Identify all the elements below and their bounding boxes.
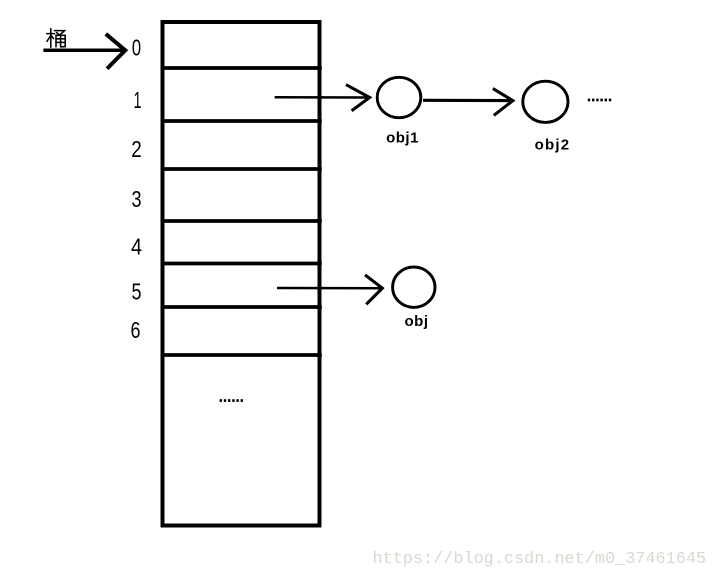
cell divider under bucket 3: [161, 219, 322, 223]
cell divider under bucket 5: [161, 305, 322, 309]
svg-text:6: 6: [131, 317, 141, 343]
label 桶 (bucket) drawn as strokes: [47, 29, 65, 48]
cell divider under bucket 6: [161, 353, 322, 357]
node circle obj1: [377, 77, 421, 117]
svg-text:https://blog.csdn.net/m0_37461: https://blog.csdn.net/m0_37461645: [373, 550, 707, 569]
cell divider under bucket 0: [161, 66, 322, 70]
arrow from obj1 to obj2: [423, 89, 513, 114]
ellipsis dots inside big bottom cell: [220, 399, 243, 402]
cell divider under bucket 1: [161, 119, 322, 123]
cell divider under bucket 2: [161, 167, 322, 171]
cell divider under bucket 4: [161, 262, 322, 266]
svg-text:1: 1: [134, 87, 142, 113]
node circle obj: [393, 267, 435, 307]
svg-text:5: 5: [132, 279, 142, 305]
svg-text:obj1: obj1: [386, 130, 419, 147]
arrow from bucket 5 to obj: [277, 276, 382, 303]
ellipsis dots after obj2: [588, 99, 611, 102]
svg-text:obj2: obj2: [535, 137, 571, 154]
svg-text:4: 4: [131, 234, 142, 260]
arrow from 桶 to index 0: [43, 35, 125, 67]
svg-text:2: 2: [131, 136, 142, 162]
node circle obj2: [523, 81, 568, 122]
svg-text:3: 3: [132, 186, 142, 212]
svg-text:0: 0: [132, 35, 141, 61]
arrow from bucket 1 to obj1: [275, 85, 370, 110]
bucket array outer rectangle: [161, 20, 322, 527]
svg-text:obj: obj: [405, 313, 429, 330]
